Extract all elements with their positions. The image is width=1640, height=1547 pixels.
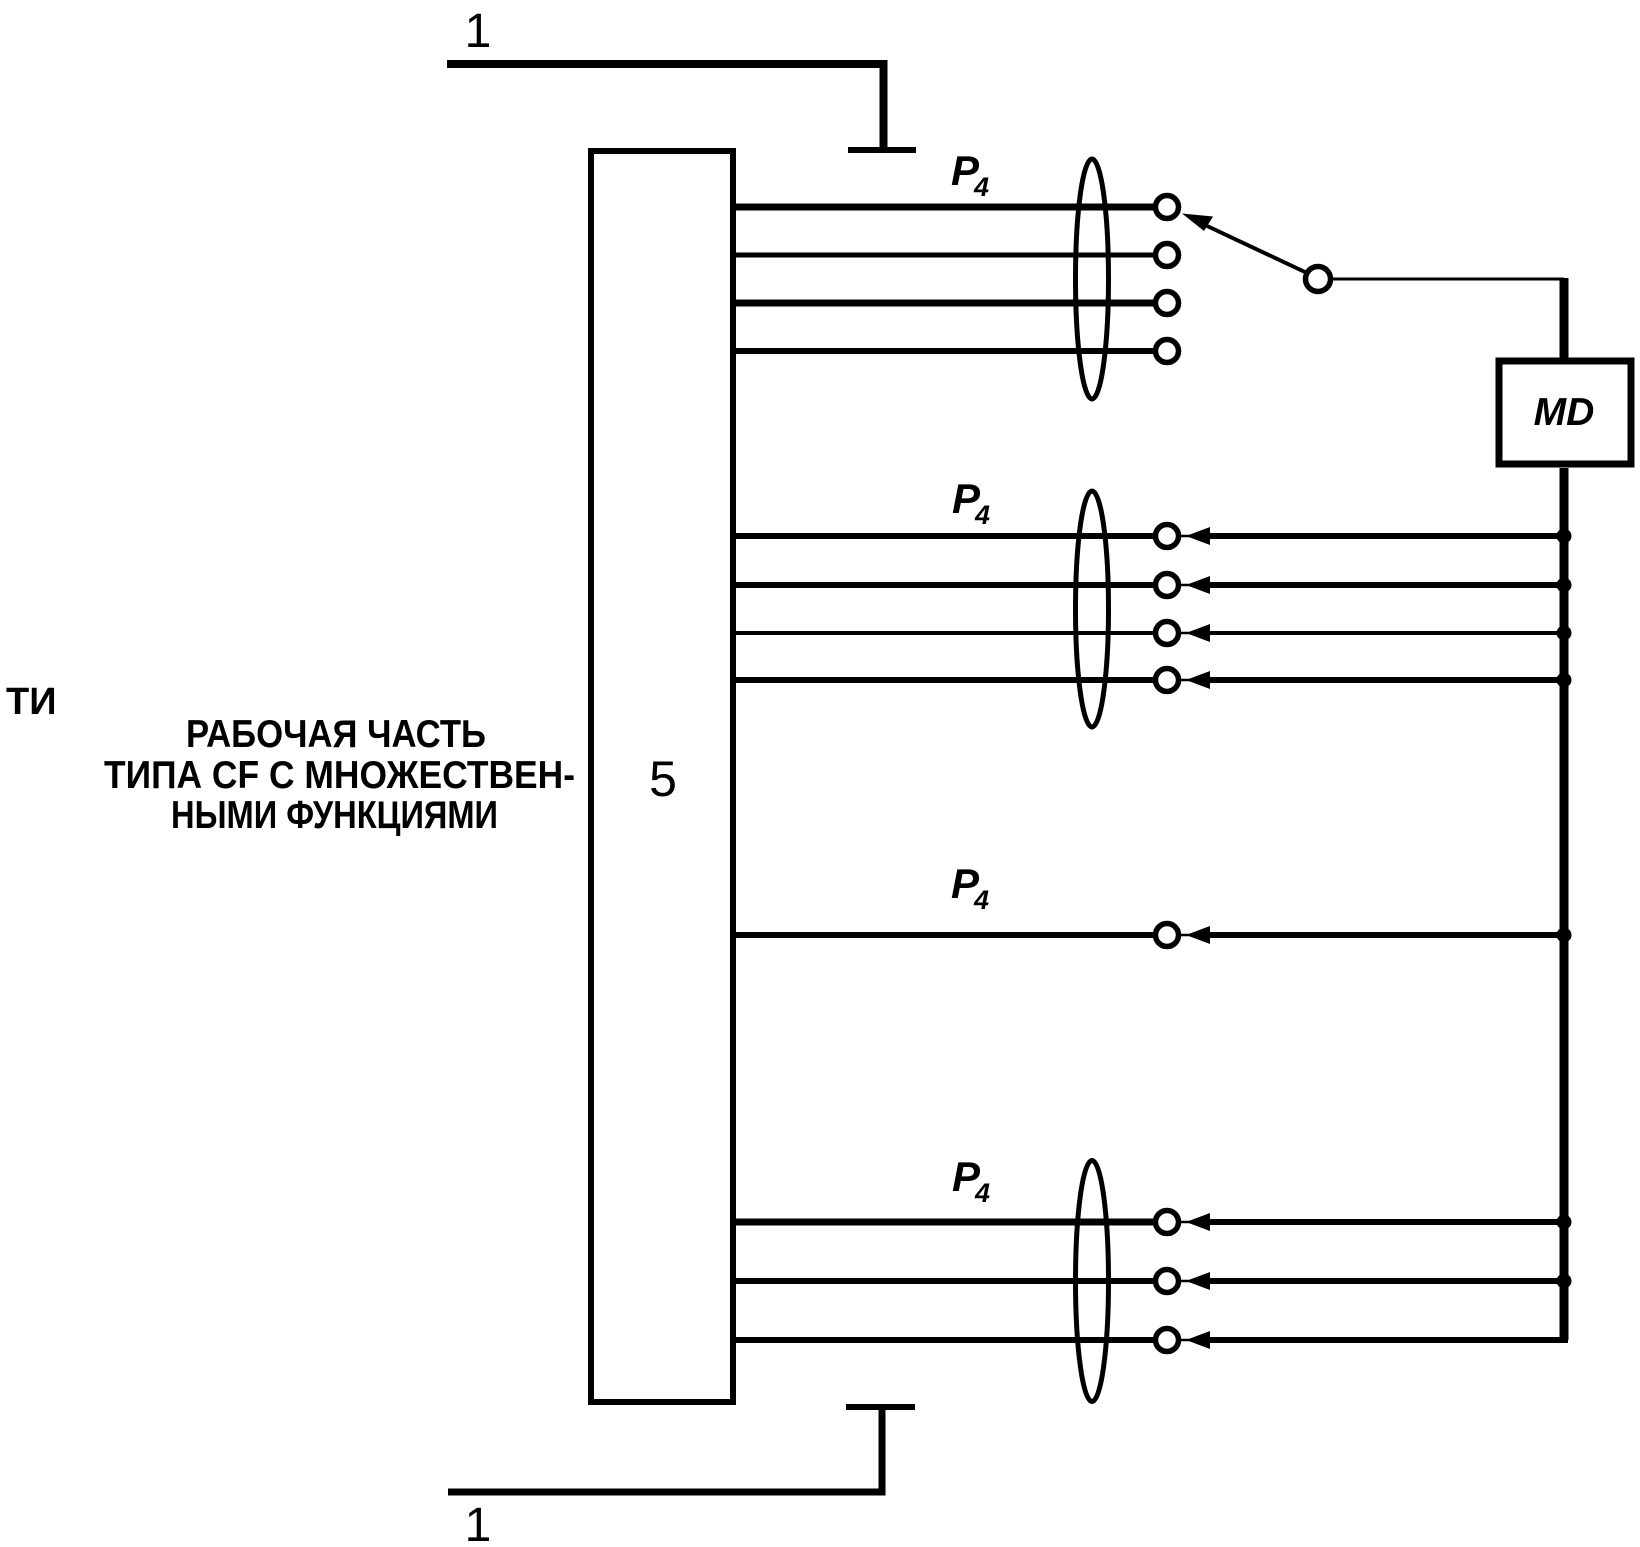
junction dot 2.1 xyxy=(1557,529,1572,544)
wire: measuring line 4.2 with arrowhead xyxy=(1181,1280,1192,1283)
terminal circle 1.3 xyxy=(1156,292,1179,315)
terminal circle 2.3 xyxy=(1156,622,1179,645)
terminal circle 1.4 xyxy=(1156,340,1179,363)
svg-text:РАБОЧАЯ ЧАСТЬ: РАБОЧАЯ ЧАСТЬ xyxy=(186,713,486,756)
terminal circle 1.2 xyxy=(1156,244,1179,267)
svg-text:1: 1 xyxy=(465,5,492,58)
junction dot 2.4 xyxy=(1557,673,1572,688)
junction dot 4.2 xyxy=(1557,1274,1572,1289)
junction dot 2.2 xyxy=(1557,578,1572,593)
junction dot 3.1 xyxy=(1557,928,1572,943)
wire: patient lead 1.1 xyxy=(733,204,1156,211)
svg-text:НЫМИ ФУНКЦИЯМИ: НЫМИ ФУНКЦИЯМИ xyxy=(171,794,498,837)
svg-text:ТИПА CF С МНОЖЕСТВЕН-: ТИПА CF С МНОЖЕСТВЕН- xyxy=(104,754,575,797)
wire: patient lead 2.3 xyxy=(733,631,1156,635)
bus wire: MD to measuring points xyxy=(1560,468,1569,1340)
svg-text:4: 4 xyxy=(973,172,989,202)
terminal circle 1.1 xyxy=(1156,196,1179,219)
terminal bar: top enclosure connection plate xyxy=(848,147,916,153)
wire: patient lead 1.3 xyxy=(733,300,1156,307)
label P4 (group 3) xyxy=(951,860,989,915)
wire: patient lead 2.1 xyxy=(733,533,1156,539)
svg-text:4: 4 xyxy=(974,1178,990,1208)
wire: measuring line 3.1 with arrowhead xyxy=(1181,934,1192,937)
wire: measuring line 2.3 with arrowhead xyxy=(1181,632,1192,635)
svg-text:ТИ: ТИ xyxy=(6,681,57,723)
wire: patient lead 4.3 xyxy=(733,1337,1156,1343)
wire: switch pivot to MD vertical drop xyxy=(1331,278,1564,281)
wire: measuring line 4.1 with arrowhead xyxy=(1181,1221,1192,1224)
terminal circle 4.1 xyxy=(1156,1211,1179,1234)
wire: measuring line 2.1 with arrowhead xyxy=(1181,535,1192,538)
switch pivot contact circle xyxy=(1306,267,1331,292)
label: РАБОЧАЯ ЧАСТЬ ТИПА CF С МНОЖЕСТВЕННЫМИ ФУНКЦИЯМИ xyxy=(104,713,575,837)
cable grouping ellipse P4 (group 2) xyxy=(1076,491,1109,727)
label P4 (group 4) xyxy=(952,1153,990,1208)
svg-text:4: 4 xyxy=(973,885,989,915)
terminal circle 4.3 xyxy=(1156,1329,1179,1352)
wire: top enclosure line 1 xyxy=(447,64,884,150)
terminal bar: bottom enclosure connection plate xyxy=(846,1404,915,1410)
label P4 (group 2) xyxy=(952,475,990,530)
wire: patient lead 2.2 xyxy=(733,582,1156,588)
terminal circle 3.1 xyxy=(1156,924,1179,947)
wire: bottom enclosure line 1 xyxy=(448,1407,882,1492)
svg-text:5: 5 xyxy=(649,751,677,807)
wire: measuring line 4.3 with arrowhead (bus corner) xyxy=(1181,1339,1192,1342)
wire: measuring line 2.4 with arrowhead xyxy=(1181,679,1192,682)
junction dot 2.3 xyxy=(1557,626,1572,641)
junction dot 4.1 xyxy=(1557,1215,1572,1230)
terminal circle 2.2 xyxy=(1156,574,1179,597)
wire: patient lead 3.1 xyxy=(733,932,1156,938)
wire: patient lead 1.4 xyxy=(733,348,1156,354)
wire: patient lead 1.2 xyxy=(733,253,1156,258)
wire: patient lead 2.4 xyxy=(733,677,1156,683)
switch lever wire xyxy=(1205,225,1307,273)
terminal circle 4.2 xyxy=(1156,1270,1179,1293)
label P4 (group 1, top) xyxy=(951,147,989,202)
svg-text:MD: MD xyxy=(1534,391,1595,434)
wire: patient lead 4.2 xyxy=(733,1278,1156,1284)
terminal circle 2.1 xyxy=(1156,525,1179,548)
wire: measuring line 2.2 with arrowhead xyxy=(1181,584,1192,587)
svg-text:1: 1 xyxy=(465,1499,492,1547)
wire: patient lead 4.1 xyxy=(733,1219,1156,1226)
switch lever arrowhead xyxy=(1182,214,1213,232)
cable grouping ellipse P4 (group 4) xyxy=(1076,1161,1109,1402)
cable grouping ellipse P4 (group 1) xyxy=(1076,159,1109,399)
block MD: measuring device xyxy=(1499,361,1631,464)
svg-text:4: 4 xyxy=(974,500,990,530)
block 5: working part (applied part) box xyxy=(591,151,733,1402)
terminal circle 2.4 xyxy=(1156,669,1179,692)
